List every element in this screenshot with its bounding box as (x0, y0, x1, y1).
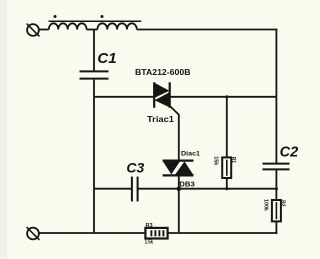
svg-text:Triac1: Triac1 (147, 115, 175, 124)
svg-text:R2: R2 (279, 200, 285, 207)
wire between L1 and L2 (87, 29, 98, 31)
wire: R1 top lead (226, 97, 228, 158)
triac Q1 bars (154, 82, 170, 108)
inductor L1 (49, 23, 87, 29)
svg-text:DB3: DB3 (179, 179, 195, 188)
resistor R2 body (272, 200, 281, 221)
capacitor C2 plates (263, 164, 290, 170)
terminal T1 (top-left) (27, 24, 40, 37)
triac Q1 gate wire (170, 106, 179, 160)
wire: lower mid rail right of C3 (138, 188, 276, 190)
junction: lower mid rail at right vertical (275, 187, 278, 190)
resistor R1 body (222, 157, 231, 178)
wire: mid rail left of triac (94, 96, 154, 98)
polarity mark L2 (101, 15, 104, 18)
svg-text:100k: 100k (262, 199, 268, 211)
diac triangles (163, 161, 193, 174)
svg-text:1.5k: 1.5k (145, 240, 153, 246)
wire: right vertical lower (275, 170, 277, 234)
capacitor C3 plates (132, 177, 138, 202)
wire: mid rail right of triac (170, 96, 277, 98)
svg-text:15k: 15k (212, 156, 218, 165)
svg-text:C3: C3 (126, 159, 144, 175)
junction: R1 bottom on lower mid rail (225, 187, 228, 190)
wire: bottom rail left of R3 (39, 232, 145, 234)
wire: left vertical upper (junction to C1 top) (93, 30, 95, 71)
svg-text:C1: C1 (97, 50, 116, 67)
svg-text:R3: R3 (146, 223, 153, 229)
wire: right vertical upper (275, 29, 277, 164)
junction: diac / C3 / bottom net (177, 186, 182, 191)
triac Q1 triangles (155, 83, 170, 107)
svg-text:Diac1: Diac1 (181, 150, 200, 157)
svg-text:BTA212-600B: BTA212-600B (135, 67, 191, 77)
inductor L2 (97, 23, 136, 29)
resistor R3 body (145, 228, 167, 239)
terminal T2 (bottom-left) (27, 227, 40, 240)
wire: R1 bottom lead (226, 178, 228, 189)
junction: R1 top on mid rail (225, 95, 228, 98)
svg-text:C2: C2 (280, 144, 299, 160)
wire: lower mid rail left of C3 (94, 188, 131, 190)
svg-text:R1: R1 (230, 157, 236, 164)
wire: left vertical lower (C1 bottom to bottom rail) (93, 80, 95, 233)
wire: bottom rail right of R3 (168, 232, 278, 234)
wire: diac bottom to bottom rail (178, 176, 180, 233)
capacitor C1 (80, 71, 109, 78)
wire T1 to L1 (39, 29, 49, 31)
wire L2 to top-right corner (137, 29, 277, 31)
diac bars (163, 161, 194, 176)
core line over L1/L2 (49, 20, 142, 22)
polarity mark L1 (54, 15, 57, 18)
